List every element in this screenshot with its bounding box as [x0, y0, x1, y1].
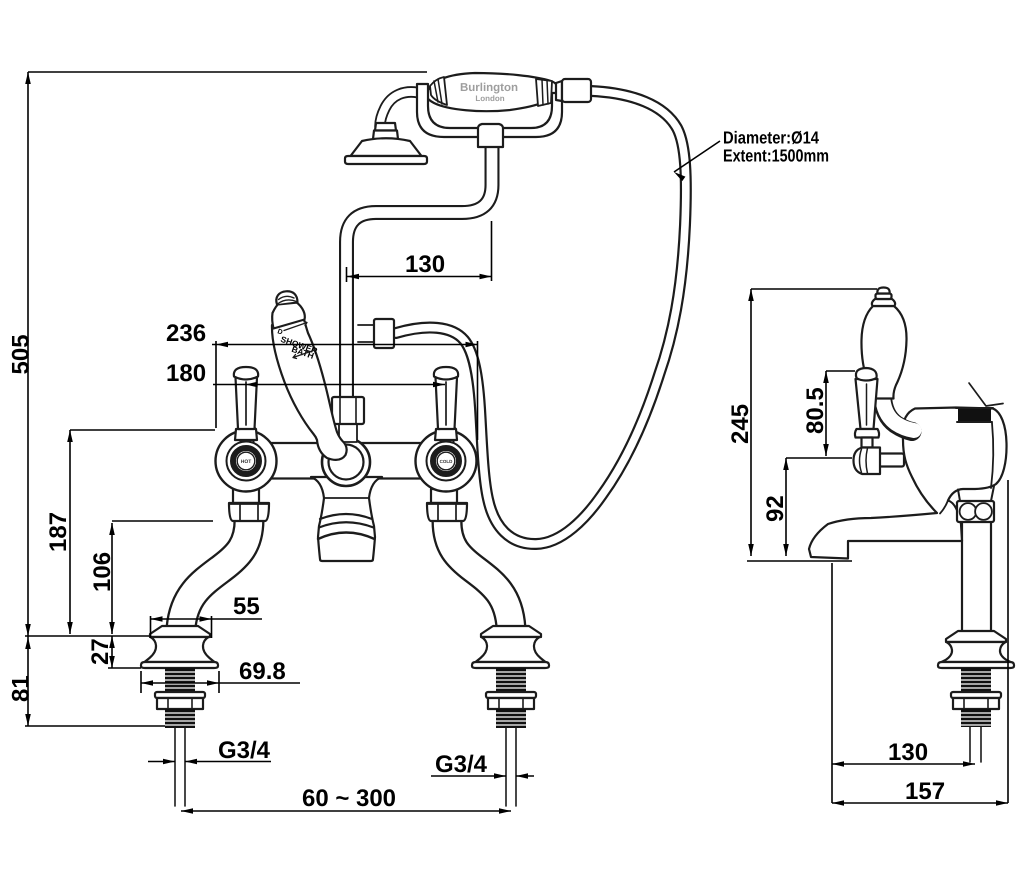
svg-text:236: 236	[166, 320, 206, 347]
svg-text:187: 187	[45, 512, 72, 552]
svg-text:69.8: 69.8	[239, 658, 286, 685]
svg-text:60 ~ 300: 60 ~ 300	[302, 785, 396, 812]
svg-text:106: 106	[89, 552, 116, 592]
svg-text:London: London	[475, 94, 504, 103]
svg-text:157: 157	[905, 778, 945, 805]
svg-text:245: 245	[727, 404, 754, 444]
svg-text:55: 55	[233, 593, 260, 620]
svg-text:G3/4: G3/4	[435, 751, 488, 778]
svg-text:G3/4: G3/4	[218, 737, 271, 764]
svg-text:505: 505	[8, 334, 35, 374]
svg-text:92: 92	[762, 495, 789, 522]
svg-text:130: 130	[888, 739, 928, 766]
svg-text:81: 81	[8, 675, 35, 702]
svg-text:130: 130	[405, 251, 445, 278]
svg-text:80.5: 80.5	[802, 387, 829, 434]
svg-text:27: 27	[87, 638, 114, 665]
svg-text:HOT: HOT	[241, 459, 252, 465]
svg-text:Extent:1500mm: Extent:1500mm	[723, 146, 829, 166]
svg-text:Burlington: Burlington	[460, 82, 518, 94]
svg-text:COLD: COLD	[440, 459, 453, 464]
svg-text:Diameter:Ø14: Diameter:Ø14	[723, 128, 819, 148]
svg-text:180: 180	[166, 360, 206, 387]
